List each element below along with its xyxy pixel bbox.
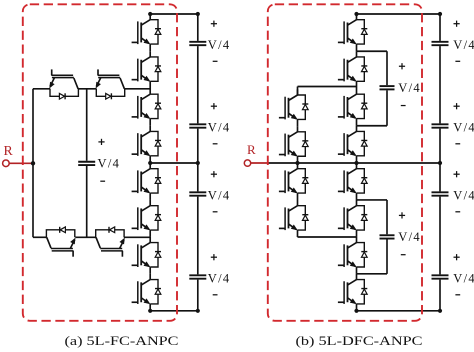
svg-text:V/4: V/4 — [453, 38, 474, 52]
svg-text:R: R — [247, 142, 256, 157]
svg-text:V/4: V/4 — [398, 81, 421, 95]
svg-text:V/4: V/4 — [208, 188, 231, 202]
svg-text:(a) 5L-FC-ANPC: (a) 5L-FC-ANPC — [65, 333, 179, 348]
svg-text:V/4: V/4 — [453, 271, 474, 285]
svg-text:V/4: V/4 — [98, 156, 121, 170]
svg-text:V/4: V/4 — [208, 271, 231, 285]
svg-text:V/4: V/4 — [208, 38, 231, 52]
svg-text:V/4: V/4 — [453, 188, 474, 202]
svg-text:R: R — [4, 143, 14, 158]
svg-text:V/4: V/4 — [398, 230, 421, 244]
svg-text:V/4: V/4 — [208, 120, 231, 134]
svg-text:(b) 5L-DFC-ANPC: (b) 5L-DFC-ANPC — [296, 333, 423, 348]
svg-text:V/4: V/4 — [453, 120, 474, 134]
